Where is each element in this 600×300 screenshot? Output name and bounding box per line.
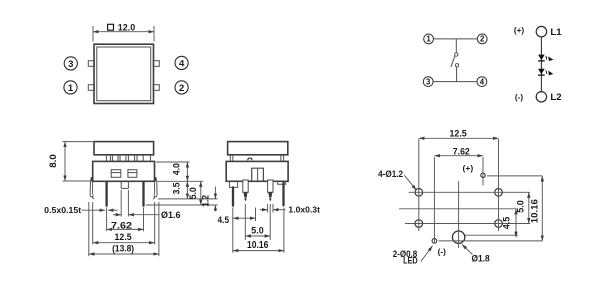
svg-text:0.5x0.15t: 0.5x0.15t — [44, 206, 81, 215]
svg-text:4.5: 4.5 — [502, 217, 512, 230]
svg-text:4.5: 4.5 — [218, 214, 230, 225]
svg-text:2: 2 — [480, 35, 485, 44]
svg-text:12.5: 12.5 — [450, 128, 467, 139]
svg-text:5.0: 5.0 — [516, 200, 526, 213]
svg-text:(-): (-) — [438, 247, 447, 257]
svg-text:12.0: 12.0 — [118, 22, 136, 33]
svg-text:3.5: 3.5 — [171, 182, 181, 194]
svg-text:L1: L1 — [550, 27, 562, 38]
svg-text:L2: L2 — [550, 92, 561, 103]
svg-text:1: 1 — [68, 83, 74, 94]
svg-text:1.2: 1.2 — [200, 195, 210, 207]
svg-text:8.0: 8.0 — [48, 154, 58, 168]
svg-text:7.62: 7.62 — [453, 145, 470, 156]
svg-text:5.0: 5.0 — [251, 225, 263, 236]
svg-text:Ø1.6: Ø1.6 — [161, 210, 181, 220]
svg-text:(-): (-) — [515, 93, 523, 102]
svg-text:4: 4 — [179, 58, 185, 69]
svg-text:1: 1 — [426, 35, 431, 44]
svg-text:4-Ø1.2: 4-Ø1.2 — [378, 169, 403, 179]
svg-text:4: 4 — [480, 77, 485, 86]
svg-text:7.62: 7.62 — [111, 220, 132, 231]
svg-text:2: 2 — [179, 83, 184, 94]
svg-text:(+): (+) — [463, 163, 474, 173]
svg-text:LED: LED — [403, 255, 418, 265]
svg-text:4.0: 4.0 — [171, 163, 181, 175]
svg-text:(13.8): (13.8) — [112, 243, 134, 254]
svg-text:10.16: 10.16 — [529, 199, 539, 223]
svg-text:3: 3 — [426, 77, 431, 86]
svg-text:3: 3 — [68, 59, 73, 70]
svg-text:10.16: 10.16 — [247, 240, 269, 251]
svg-text:Ø1.8: Ø1.8 — [472, 253, 490, 264]
svg-text:5.0: 5.0 — [188, 187, 198, 199]
svg-text:(+): (+) — [514, 26, 525, 35]
svg-text:12.5: 12.5 — [115, 232, 133, 243]
svg-text:1.0x0.3t: 1.0x0.3t — [288, 205, 320, 214]
